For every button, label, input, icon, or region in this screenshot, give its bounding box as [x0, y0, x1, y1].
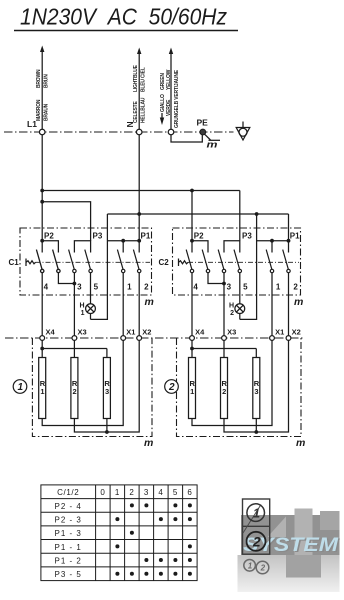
- supply bus dash-dot line: [4, 131, 234, 133]
- table dots row P2-3: [115, 517, 191, 521]
- svg-text:2: 2: [222, 387, 226, 396]
- svg-text:1: 1: [81, 310, 85, 317]
- svg-text:1: 1: [40, 387, 44, 396]
- node X2 C2: [286, 336, 291, 341]
- svg-text:5: 5: [243, 283, 248, 292]
- svg-text:P2 - 3: P2 - 3: [55, 516, 82, 525]
- resistor R1: [39, 358, 46, 419]
- svg-text:3: 3: [144, 488, 149, 497]
- resistor R3 bank 2: [253, 358, 260, 419]
- wire N to C2 P1: [288, 214, 290, 241]
- contact P1 C2 blades: [266, 250, 290, 273]
- coil link C1: [26, 259, 36, 267]
- svg-text:X3: X3: [227, 328, 236, 337]
- watermark light band: [238, 555, 340, 592]
- svg-text:3: 3: [77, 283, 82, 292]
- svg-text:P1: P1: [290, 232, 300, 241]
- svg-text:2: 2: [230, 310, 234, 317]
- svg-text:2: 2: [293, 283, 298, 292]
- node PE: [200, 129, 206, 135]
- lamp H1: [86, 304, 96, 320]
- wires C2 contacts down: [192, 273, 289, 336]
- wires C1 contacts down: [42, 273, 139, 336]
- svg-text:P2: P2: [44, 232, 54, 241]
- svg-text:N: N: [125, 121, 135, 127]
- contact P3 C1 blades: [69, 250, 93, 273]
- lamp H2: [235, 304, 245, 320]
- svg-text:1: 1: [253, 505, 260, 520]
- svg-text:BROWN: BROWN: [36, 69, 42, 88]
- junction N C1: [137, 212, 141, 216]
- svg-text:P3: P3: [242, 232, 252, 241]
- svg-text:4: 4: [158, 488, 163, 497]
- legend circled 1: [247, 504, 265, 522]
- svg-text:BRUN: BRUN: [44, 74, 50, 88]
- contact P3 C1 bracket: [74, 241, 90, 253]
- svg-text:1: 1: [115, 488, 120, 497]
- wire N lightblue supply: [138, 52, 140, 130]
- wire PE loop to PE node: [171, 135, 202, 142]
- contact P2 C1 blades: [36, 250, 60, 273]
- wire L1 brown supply: [41, 50, 43, 130]
- svg-text:3: 3: [227, 283, 232, 292]
- svg-text:P1 - 1: P1 - 1: [55, 543, 82, 552]
- svg-text:C2: C2: [159, 258, 170, 267]
- wire L1 to C1 P3: [42, 202, 90, 241]
- svg-text:m: m: [294, 296, 303, 308]
- svg-text:2: 2: [73, 387, 77, 396]
- junction C2 P2 feed: [190, 189, 194, 193]
- wires resistor bank 2 top: [192, 340, 256, 357]
- node X3 C2: [222, 336, 227, 341]
- coil link C2: [179, 259, 189, 267]
- svg-text:4: 4: [44, 283, 49, 292]
- table header row: [57, 488, 192, 497]
- svg-text:BLEU CIEL: BLEU CIEL: [141, 67, 147, 92]
- svg-text:P1 - 3: P1 - 3: [55, 529, 82, 538]
- node N: [136, 129, 142, 135]
- table row labels: [55, 502, 82, 579]
- arrow up wire PE: [169, 48, 173, 55]
- resistor box 2: [177, 338, 302, 437]
- svg-text:P3: P3: [93, 232, 103, 241]
- table dots row P1-3: [130, 531, 134, 535]
- node X4 C1: [40, 336, 45, 341]
- circled 2: [165, 380, 179, 394]
- svg-text:BRAUN: BRAUN: [44, 103, 50, 121]
- svg-text:PE: PE: [197, 118, 209, 128]
- wires resistor bank 1 bottom: [42, 340, 139, 432]
- svg-text:X1: X1: [126, 328, 135, 337]
- small circled 1: [244, 560, 256, 572]
- svg-text:H: H: [229, 303, 234, 310]
- terminal row dash-dot line: [5, 337, 303, 339]
- legend circled 2: [247, 532, 266, 551]
- contact P3 C2 blades: [218, 250, 241, 273]
- svg-text:X4: X4: [195, 328, 205, 337]
- watermark tab: [286, 555, 321, 578]
- contact P1 C2 bracket: [257, 241, 289, 253]
- svg-text:2: 2: [144, 283, 149, 292]
- svg-text:m: m: [145, 296, 154, 308]
- svg-text:2: 2: [252, 533, 261, 549]
- svg-text:C1: C1: [9, 258, 20, 267]
- svg-text:m: m: [207, 140, 218, 150]
- svg-text:1N230V AC 50/60Hz: 1N230V AC 50/60Hz: [20, 4, 227, 30]
- contact P2 C2 bracket: [192, 241, 208, 253]
- svg-text:X4: X4: [46, 328, 56, 337]
- svg-text:0: 0: [100, 488, 105, 497]
- svg-text:P1: P1: [141, 232, 151, 241]
- svg-text:VERDE: VERDE: [166, 99, 172, 116]
- table dots row P1-2: [144, 558, 192, 562]
- cam program table grid: [41, 485, 197, 581]
- watermark top-right square: [320, 511, 340, 530]
- wire lamp return C1: [91, 214, 108, 319]
- resistor R2 bank 2: [221, 358, 228, 419]
- svg-text:YELLOW: YELLOW: [166, 69, 172, 90]
- mech linkage C1: [36, 261, 151, 263]
- svg-text:P1 - 2: P1 - 2: [55, 557, 82, 566]
- table dots row P3-5: [115, 572, 191, 576]
- arrow up wire N: [137, 48, 141, 55]
- watermark digit 4 triangle: [268, 517, 287, 538]
- svg-text:4: 4: [193, 283, 198, 292]
- svg-text:1: 1: [190, 387, 194, 396]
- svg-text:MARRON: MARRON: [36, 99, 42, 121]
- mech linkage C2: [188, 261, 299, 263]
- svg-text:GRUNGELB VERT/JAUNE: GRUNGELB VERT/JAUNE: [174, 69, 180, 128]
- node X1 C2: [270, 336, 275, 341]
- contact P1 C1 blades: [117, 250, 140, 273]
- wire PE to chassis diagonal: [204, 134, 210, 140]
- junction L1 bus: [40, 189, 44, 193]
- svg-text:X2: X2: [142, 328, 151, 337]
- terminal numbers C2: [193, 283, 298, 292]
- svg-text:3: 3: [254, 387, 258, 396]
- contact P2 C1 bracket: [42, 241, 58, 253]
- wires resistor bank 2 bottom: [192, 340, 289, 432]
- svg-text:HELLBLAU: HELLBLAU: [141, 97, 147, 123]
- resistor R2: [71, 358, 78, 419]
- junction N C2: [255, 212, 259, 216]
- wire L1 drop: [41, 135, 43, 241]
- small circled 2: [256, 561, 269, 574]
- node X4 C2: [190, 336, 195, 341]
- earth symbol: [236, 122, 250, 141]
- arrow up wire L1: [40, 46, 44, 53]
- svg-text:X3: X3: [78, 328, 87, 337]
- svg-text:3: 3: [105, 387, 109, 396]
- node L1: [39, 129, 45, 135]
- node X1 C1: [121, 336, 126, 341]
- svg-text:5: 5: [94, 283, 99, 292]
- wire lamp return C2: [240, 214, 257, 319]
- legend box: [243, 499, 270, 554]
- svg-text:C/1/2: C/1/2: [57, 488, 79, 497]
- contact P1 C1 bracket: [107, 241, 139, 253]
- N distribution bus: [107, 213, 288, 215]
- L1 distribution bus: [42, 190, 240, 192]
- svg-text:X1: X1: [275, 328, 284, 337]
- chassis ground PE: [209, 139, 221, 141]
- legend diagonal: [243, 505, 261, 534]
- contactor C2 box: [173, 228, 301, 295]
- svg-text:H: H: [79, 303, 84, 310]
- svg-text:2: 2: [260, 564, 266, 573]
- svg-text:5: 5: [173, 488, 178, 497]
- svg-text:6: 6: [187, 488, 192, 497]
- contactor C1 box: [20, 228, 152, 295]
- svg-text:2: 2: [168, 382, 175, 393]
- wire N drop: [138, 135, 140, 241]
- resistor R1 bank 2: [189, 358, 196, 419]
- resistor R3: [103, 358, 110, 419]
- svg-text:m: m: [296, 437, 305, 449]
- svg-text:1: 1: [276, 283, 281, 292]
- table dots row P1-1: [115, 544, 191, 548]
- svg-text:1: 1: [248, 561, 253, 570]
- svg-text:P2 - 4: P2 - 4: [55, 502, 82, 511]
- circled 1: [13, 380, 27, 394]
- arrow down giallo label: [161, 113, 163, 119]
- resistor box 1: [32, 338, 152, 437]
- label BROWN BRUN: [36, 64, 180, 128]
- svg-text:LIGHTBLUE: LIGHTBLUE: [133, 64, 139, 92]
- wire feed C2 P3: [239, 191, 241, 241]
- svg-text:CELESTE: CELESTE: [133, 100, 139, 123]
- wires resistor bank 1 top: [42, 340, 107, 357]
- svg-text:X2: X2: [292, 328, 301, 337]
- table dots row P2-4: [130, 503, 192, 507]
- svg-text:P3 - 5: P3 - 5: [55, 570, 82, 579]
- svg-text:L1: L1: [27, 119, 37, 129]
- title underline: [14, 30, 238, 32]
- svg-text:m: m: [144, 437, 153, 449]
- svg-text:2: 2: [129, 488, 134, 497]
- watermark digit 4 stem: [295, 509, 313, 556]
- svg-text:1: 1: [127, 283, 132, 292]
- node green-yellow: [168, 129, 174, 135]
- wire feed C2 P2: [191, 191, 193, 241]
- svg-text:1: 1: [18, 382, 24, 393]
- wire PE green-yellow supply: [170, 52, 172, 130]
- node X3 C1: [72, 336, 77, 341]
- contact P3 C2 bracket: [224, 241, 240, 253]
- contact P2 C2 blades: [186, 250, 210, 273]
- terminal numbers C1: [44, 283, 150, 292]
- svg-text:P2: P2: [194, 232, 204, 241]
- node X2 C1: [137, 336, 142, 341]
- junction L1 branch: [40, 200, 44, 204]
